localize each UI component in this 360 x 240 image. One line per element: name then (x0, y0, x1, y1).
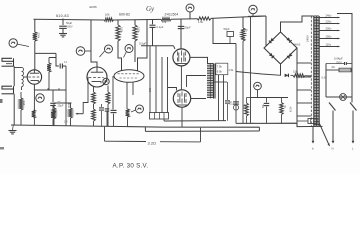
label 600-82 (119, 13, 130, 17)
resistor R4 grid stop (47, 58, 51, 91)
wire bus to V2 anode (91, 20, 97, 67)
wire socket to jog (163, 119, 165, 121)
label 3.2ohm (148, 140, 157, 145)
wire x66 down (65, 66, 67, 126)
svg-text:50µF: 50µF (185, 26, 192, 30)
scan mark 1 (0, 99, 3, 103)
svg-text:10k: 10k (105, 12, 110, 16)
svg-text:100k: 100k (137, 27, 141, 33)
wire left psu rail (250, 16, 252, 123)
fuse F1 (326, 65, 352, 72)
resistor R7 (116, 20, 124, 71)
wire bus to V4 anode (180, 19, 182, 49)
wire x156 down (155, 46, 157, 113)
svg-text:2×EL504: 2×EL504 (165, 13, 179, 17)
label 240V rotated (306, 35, 310, 42)
wire speaker arrow (319, 123, 329, 146)
wire V5 anode to OT (191, 98, 206, 100)
wire V4-V5 link (180, 66, 182, 90)
resistor R6 (106, 86, 110, 127)
svg-text:4k7: 4k7 (243, 104, 246, 109)
svg-text:150v: 150v (326, 34, 332, 38)
svg-text:1M: 1M (64, 121, 67, 124)
svg-text:47k: 47k (162, 20, 167, 24)
label 610-83 (56, 14, 69, 18)
label pin L (352, 147, 354, 151)
transformer taps (319, 13, 339, 47)
capacitor C11 bias (262, 98, 269, 124)
svg-text:9.5k: 9.5k (217, 69, 223, 73)
capacitor C3 bypass (50, 90, 64, 126)
svg-text:0.5µF: 0.5µF (139, 42, 146, 46)
svg-text:220k: 220k (37, 33, 41, 39)
svg-text:6.3V: 6.3V (288, 106, 292, 112)
resistor R10 on bus (161, 18, 171, 25)
wire TP6 rail (248, 15, 266, 17)
label 1.5k right (229, 69, 234, 72)
ground symbol input (9, 131, 17, 134)
svg-text:50µ: 50µ (262, 103, 265, 108)
resistor R8 (133, 20, 141, 62)
test point TP8 (124, 45, 134, 58)
test point TP7 (100, 45, 113, 57)
tube V1 triode (27, 70, 41, 84)
wire V4 anode to OT (190, 57, 208, 63)
test point TP10 (254, 82, 262, 90)
input transformer T3 (14, 68, 27, 91)
capacitor C9 electrolytic (224, 27, 234, 44)
label 1k rotated (67, 103, 71, 108)
potentiometer P1 volume (64, 78, 88, 126)
test point TP4 (103, 78, 109, 84)
switch S1b (350, 103, 357, 111)
resistor R15 (241, 17, 249, 123)
ground symbol C2 (59, 34, 67, 37)
wire OT secondary down1 (218, 75, 220, 121)
input jack J2 (2, 86, 14, 94)
svg-text:2A: 2A (332, 65, 335, 69)
label Gy script (146, 5, 155, 13)
wire cathode rail (34, 88, 66, 90)
diode D5 (285, 74, 289, 78)
wire pot top rail (54, 101, 72, 103)
capacitor C8 (178, 26, 191, 30)
switch S1a (329, 103, 336, 111)
svg-text:200v: 200v (326, 26, 332, 30)
svg-text:50µF: 50µF (224, 27, 231, 31)
wire V3 bottom leads (127, 82, 133, 109)
resistor R5 cathode (92, 87, 96, 126)
svg-text:7.5k: 7.5k (217, 65, 223, 69)
svg-text:N: N (332, 147, 334, 151)
input jack J1 (2, 58, 14, 66)
svg-text:EF86: EF86 (90, 5, 98, 9)
capacitor C6 coupling (150, 20, 164, 46)
wire selector bracket (337, 14, 352, 103)
wire bus to bridge (265, 16, 267, 47)
wire V3 left lead (112, 76, 114, 110)
capacitor C2 smoothing (59, 19, 73, 34)
test point TP2 (36, 94, 44, 102)
wire feedback tap (104, 127, 106, 141)
svg-text:3.2Ω: 3.2Ω (148, 140, 157, 145)
wire bridge right down (296, 48, 298, 123)
svg-text:0.1µF: 0.1µF (157, 25, 164, 29)
label pin N (332, 147, 334, 151)
capacitor C5 (99, 104, 104, 126)
test point TP3 (76, 47, 91, 56)
svg-text:25µF: 25µF (58, 104, 64, 108)
wire ground bus (11, 125, 259, 127)
wire OT tap line (214, 81, 227, 83)
tube V2 triode (87, 67, 107, 87)
label 0.5uF (139, 42, 146, 46)
wire x150 down (148, 46, 151, 113)
output transformer T2 winding (207, 64, 215, 99)
label 2xEL504 (165, 13, 179, 17)
label T2 box (216, 63, 228, 74)
capacitor C10 electrolytic (229, 101, 239, 110)
svg-text:0.04µF: 0.04µF (334, 57, 343, 61)
resistor R11 on bus (197, 17, 211, 24)
capacitor C13 feedback (105, 109, 110, 126)
scan mark 2 (0, 147, 4, 150)
svg-text:Gy: Gy (146, 5, 155, 13)
resistor R18 bias (280, 98, 287, 124)
capacitor C12 secondary (225, 82, 233, 121)
wire bias loop (251, 97, 288, 99)
wire lamp line (326, 96, 352, 98)
wire TP10 down (257, 90, 259, 98)
svg-text:15Ω: 15Ω (293, 69, 298, 73)
label pin E (312, 147, 314, 151)
wire bridge bottom (236, 64, 311, 76)
svg-text:50µF: 50µF (66, 21, 73, 25)
wire x162 down (161, 57, 163, 113)
label mains cap (326, 57, 352, 66)
svg-text:610-83: 610-83 (56, 14, 69, 18)
title AP 30 SV (113, 163, 149, 170)
resistor R4b (52, 103, 56, 126)
capacitor C4 coupling (60, 61, 68, 69)
resistor R16 (243, 98, 252, 124)
wire bus drop x147 (138, 20, 148, 71)
power transformer core (310, 16, 312, 127)
resistor R9 on bus (104, 12, 114, 21)
wire mains N (332, 111, 335, 144)
tube V3 phase splitter (114, 70, 144, 83)
wire grid line V4 (141, 46, 175, 49)
wire mains E (312, 127, 315, 144)
svg-text:110v: 110v (326, 42, 332, 46)
wire mains left rail (325, 64, 327, 98)
wire anode node (35, 53, 59, 70)
test point TP6 (249, 5, 257, 16)
wire screen tap (187, 76, 207, 88)
svg-text:1M: 1M (22, 101, 26, 105)
wire bus drop x213 (213, 18, 236, 43)
wire bridge top lead (281, 16, 314, 32)
svg-text:240v: 240v (326, 13, 332, 17)
resistor R1 grid leak (19, 92, 26, 125)
svg-text:240V: 240V (306, 35, 310, 42)
capacitor C7 (111, 110, 117, 126)
svg-text:220v: 220v (326, 19, 332, 23)
resistor R2 anode load (33, 19, 41, 53)
svg-text:1.5k: 1.5k (229, 69, 234, 72)
wire C9 down (235, 44, 237, 124)
svg-text:300: 300 (148, 88, 151, 93)
wire OT secondary down2 (164, 75, 226, 121)
svg-text:A.P. 30 S.V.: A.P. 30 S.V. (113, 163, 149, 170)
resistor R17 (293, 69, 305, 77)
wire V1 cathode (33, 84, 35, 90)
svg-text:MAINS: MAINS (293, 44, 301, 47)
svg-text:600-82: 600-82 (119, 13, 130, 17)
lamp LP1 (340, 94, 347, 101)
svg-text:350V: 350V (67, 26, 73, 29)
svg-text:1.5k: 1.5k (198, 20, 204, 24)
transformer secondary taps (297, 63, 312, 116)
wire feedback line (105, 128, 201, 142)
wire jack rail (13, 66, 15, 130)
wire mains L (352, 111, 355, 144)
terminal block (297, 119, 318, 124)
test point TP1 (9, 39, 29, 47)
tube V5 EL504 (173, 90, 190, 107)
wire psu bottom bus (236, 123, 323, 126)
test point TP5 (186, 4, 194, 19)
svg-text:100k: 100k (120, 27, 124, 33)
wire x167 down (168, 57, 177, 113)
power transformer T1 winding (314, 16, 319, 127)
wire hum rail (145, 127, 259, 131)
bridge rectifier D1-D4 (264, 32, 297, 64)
resistor R12 (126, 109, 130, 126)
test point TP9 (131, 105, 144, 113)
label EF86 (90, 5, 98, 9)
label 6.3V (288, 77, 327, 113)
tube V4 EL504 (173, 49, 190, 66)
resistor R3 cathode (32, 90, 36, 125)
label mains (293, 44, 301, 47)
speaker socket (150, 113, 169, 120)
wire B+ bus (34, 16, 267, 20)
wire V5 cathode (181, 107, 183, 127)
